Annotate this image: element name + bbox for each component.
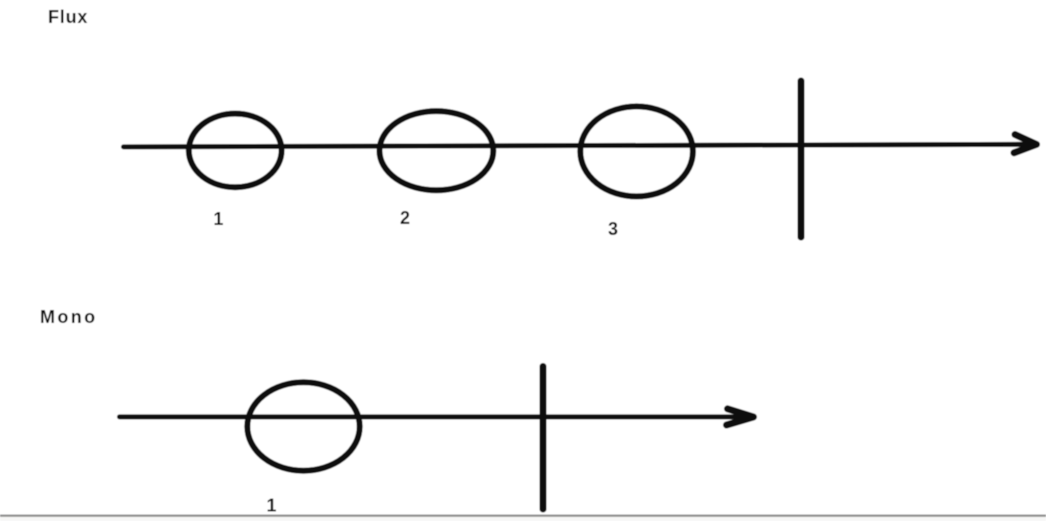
event circle 2 on Flux line — [380, 111, 494, 190]
event circle 1 on Flux line — [189, 114, 282, 188]
arrowhead of Mono line — [727, 409, 754, 425]
terminator tick on Mono line — [540, 367, 547, 510]
svg-text:Flux: Flux — [48, 7, 88, 27]
wire: Mono timeline — [120, 414, 742, 419]
svg-text:Mono: Mono — [40, 307, 98, 327]
svg-text:1: 1 — [213, 209, 223, 229]
bottom strip below border — [0, 517, 1046, 521]
terminator tick on Flux line — [798, 81, 805, 237]
wire: Flux timeline — [124, 144, 1031, 147]
svg-text:2: 2 — [400, 208, 410, 228]
event circle 1 on Mono line — [247, 382, 359, 470]
window border line at bottom — [0, 515, 1046, 517]
arrowhead of Flux line — [1014, 135, 1037, 153]
event circle 3 on Flux line — [580, 106, 693, 196]
svg-text:3: 3 — [608, 219, 618, 239]
svg-text:1: 1 — [266, 496, 276, 516]
